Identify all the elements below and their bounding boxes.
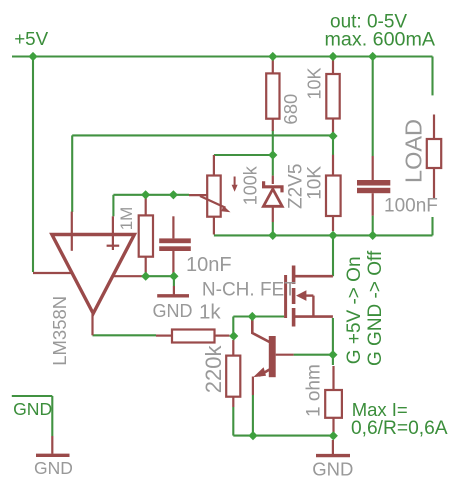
svg-text:Z2V5: Z2V5 [285,164,306,209]
svg-text:100nF: 100nF [384,196,438,217]
svg-text:LOAD: LOAD [401,119,427,183]
svg-text:GND: GND [312,458,353,479]
svg-text:10K: 10K [304,67,324,99]
svg-text:max. 600mA: max. 600mA [325,29,436,51]
svg-text:G +5V -> On: G +5V -> On [344,256,365,364]
svg-text:N-CH. FET: N-CH. FET [202,279,296,300]
svg-text:100k: 100k [241,165,261,205]
svg-text:GND: GND [13,399,52,419]
svg-text:1M: 1M [117,207,136,231]
svg-text:220k: 220k [201,344,226,393]
svg-text:10K: 10K [304,166,325,200]
svg-text:680: 680 [280,94,301,125]
svg-text:LM358N: LM358N [49,296,70,366]
svg-text:10nF: 10nF [186,254,232,276]
svg-text:Max I=: Max I= [352,399,408,420]
svg-text:1k: 1k [199,300,221,323]
svg-text:0,6/R=0,6A: 0,6/R=0,6A [351,418,448,439]
svg-text:GND: GND [153,301,193,321]
svg-text:1 ohm: 1 ohm [304,364,325,417]
svg-text:+5V: +5V [14,28,48,49]
svg-text:G GND -> Off: G GND -> Off [365,250,386,366]
svg-text:GND: GND [34,458,73,478]
